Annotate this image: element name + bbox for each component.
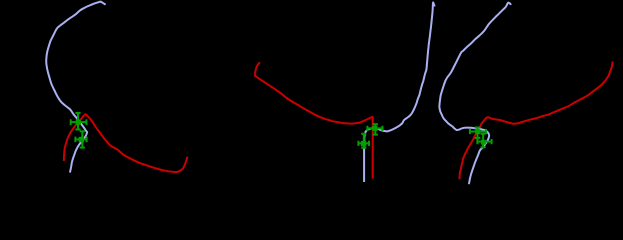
panel 2 lower data point: error bars (358, 134, 369, 148)
panel 1 upper data point: error bars (71, 113, 87, 130)
panel 1 lower data point: error bars (75, 131, 86, 147)
panel 1: blue model light curve (46, 2, 105, 172)
panel 3 lower data point: error bars (477, 134, 491, 148)
panel 3 upper data point: error bars (470, 128, 486, 138)
panel 3 lower data point: data point (481, 140, 486, 145)
panel 1: red model light curve (left branch) (64, 114, 86, 160)
panel 3: red model light curve (right branch) (488, 62, 613, 123)
panel 2: blue vertical drop (363, 140, 365, 182)
panel 2: red vertical drop (372, 117, 374, 179)
panel 1 lower data point: data point (79, 137, 84, 142)
panel 3: blue model light curve (outer arc) (444, 3, 510, 84)
panel 3 upper data point: data point (475, 129, 480, 134)
panel 3: blue model light curve (inner loop) (439, 84, 489, 184)
panel 2 upper data point: data point (372, 126, 377, 131)
panel 3: red model light curve (left branch) (460, 117, 489, 178)
panel 2 upper data point: error bars (367, 124, 382, 134)
panel 1: red model light curve (right branch) (86, 114, 188, 172)
panel 1 upper data point: data point (76, 120, 81, 125)
panel 2 lower data point: data point (361, 141, 366, 146)
panel 2: red model light curve (main) (255, 76, 372, 124)
panel 2: red model light curve (cusp hook) (255, 63, 259, 76)
panel 2: blue model light curve (364, 2, 434, 142)
